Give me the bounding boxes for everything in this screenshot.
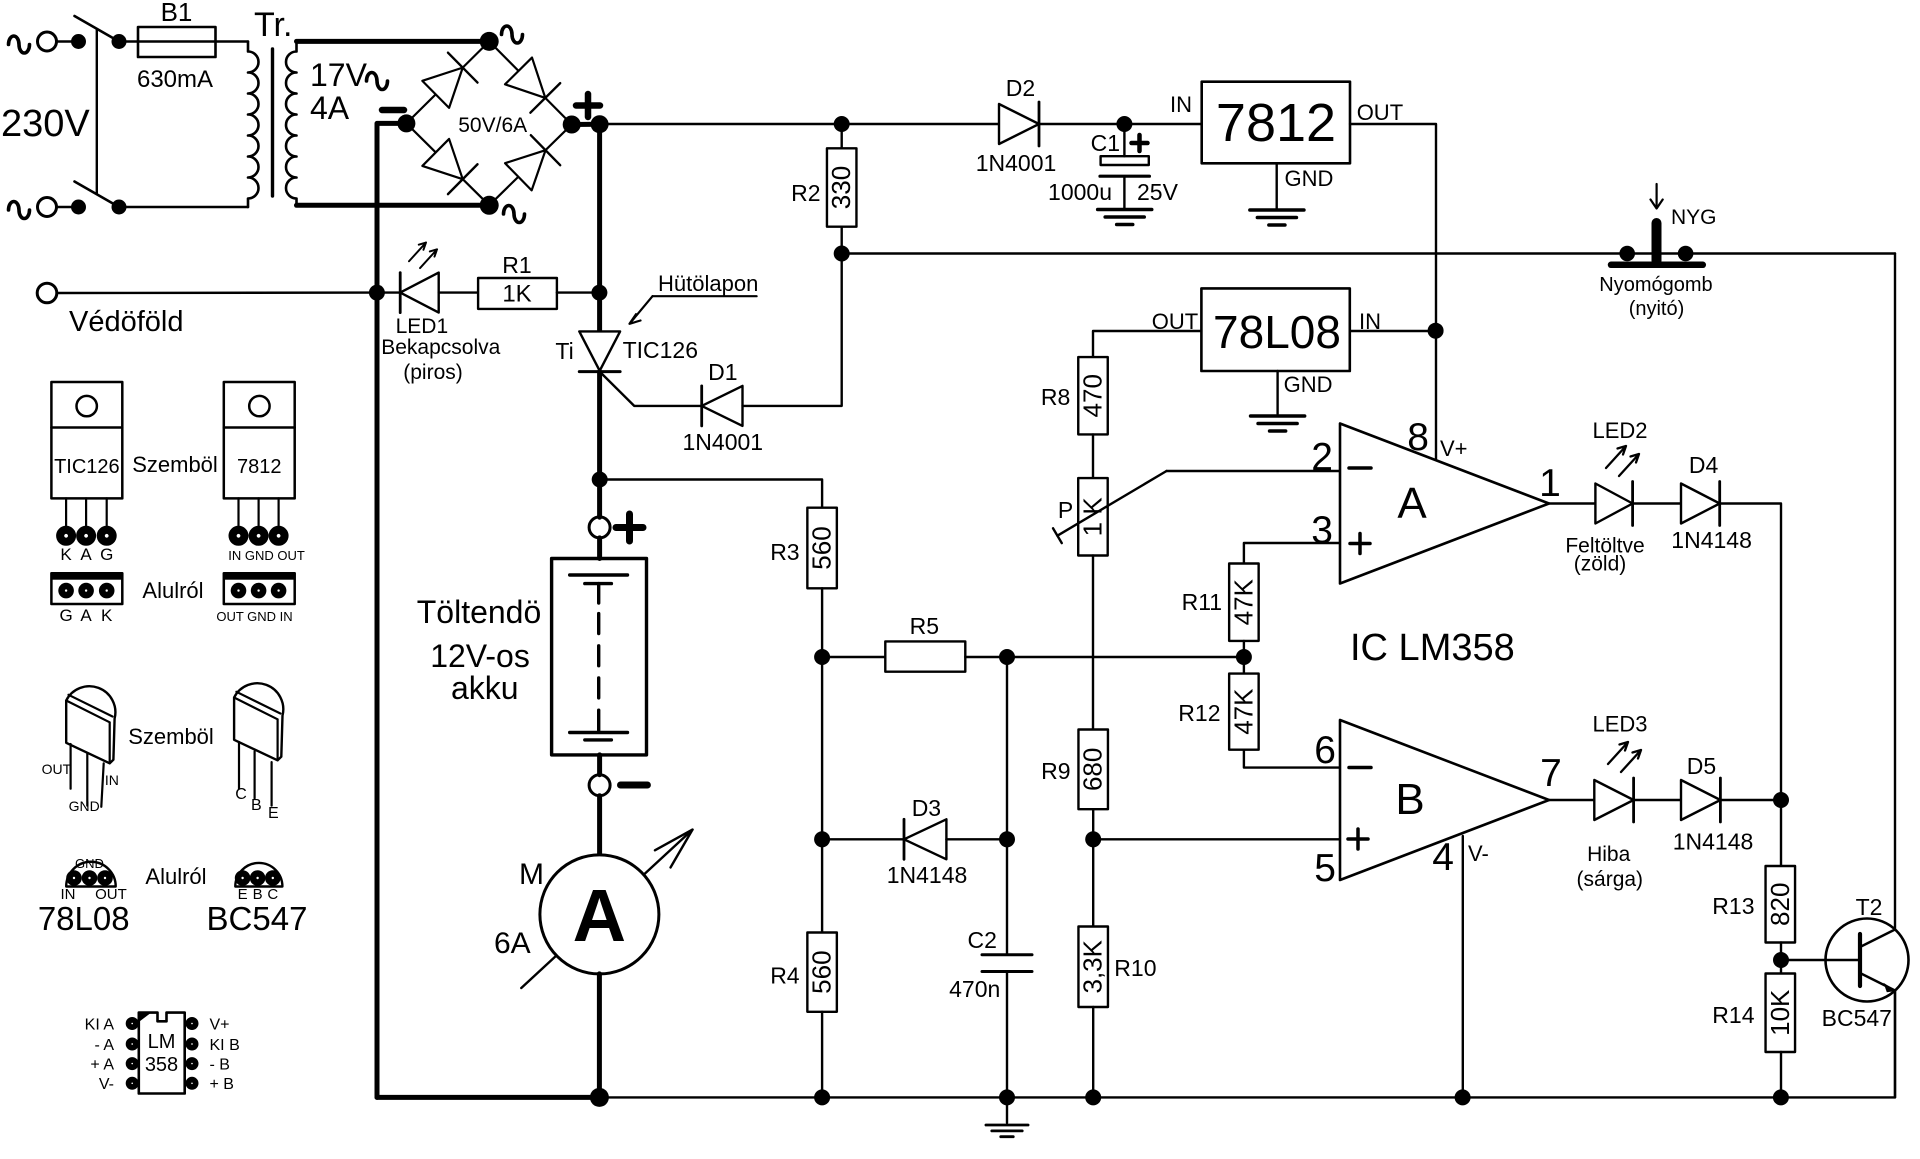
resistor R2 330 — [791, 124, 856, 254]
svg-text:3,3K: 3,3K — [1078, 939, 1108, 993]
svg-text:1 K: 1 K — [1078, 497, 1108, 537]
wire to fuse — [119, 40, 248, 42]
wire bridge edge top-left — [406, 41, 489, 123]
svg-text:470: 470 — [1078, 374, 1108, 417]
svg-text:LED3: LED3 — [1592, 712, 1647, 737]
svg-text:230V: 230V — [1, 103, 90, 145]
switch S1a blade — [75, 16, 120, 42]
wire R5 row to R11 — [1007, 656, 1244, 658]
svg-text:R11: R11 — [1182, 589, 1223, 615]
svg-text:OUT GND IN: OUT GND IN — [216, 609, 292, 624]
svg-text:8: 8 — [1407, 416, 1429, 459]
ground C1 — [1098, 210, 1152, 225]
svg-text:1N4148: 1N4148 — [1673, 829, 1754, 855]
wire P wiper to pin2 — [1167, 470, 1341, 472]
svg-text:LM: LM — [148, 1031, 176, 1053]
svg-text:R8: R8 — [1041, 384, 1070, 410]
label plus — [576, 94, 600, 117]
transformer secondary winding — [286, 42, 297, 206]
node bridge minus — [397, 114, 415, 132]
wire R3 to node — [821, 588, 823, 657]
IC LM358 DIP pinout — [85, 1013, 240, 1094]
svg-text:4: 4 — [1432, 836, 1454, 879]
wire plus bus mid thick — [597, 372, 602, 518]
svg-text:K: K — [101, 606, 113, 625]
pushbutton NYG (nyitó) — [1599, 184, 1716, 320]
op-amp U1B LM358 — [1314, 720, 1562, 890]
svg-text:1N4001: 1N4001 — [976, 150, 1057, 176]
node bridge AC bottom — [480, 196, 499, 215]
svg-text:LED2: LED2 — [1592, 418, 1647, 443]
svg-text:47K: 47K — [1228, 688, 1258, 735]
diode D2 1N4001 — [976, 75, 1057, 176]
wire minus bus — [377, 123, 406, 1097]
resistor R10 3,3K — [1078, 839, 1157, 1097]
svg-text:7812: 7812 — [1216, 93, 1336, 153]
ammeter M 6A — [494, 830, 693, 988]
svg-text:R14: R14 — [1712, 1002, 1754, 1028]
wire D5 to node — [1720, 799, 1781, 801]
node bridge plus — [563, 115, 609, 133]
transistor T2 BC547 — [1781, 894, 1909, 1097]
node switch S1a contact — [71, 34, 86, 49]
svg-text:R1: R1 — [502, 252, 531, 278]
resistor R12 47K — [1178, 657, 1258, 750]
svg-text:KI B: KI B — [210, 1037, 240, 1054]
label 17V~ 4A — [310, 57, 388, 126]
diode D5 1N4148 — [1673, 753, 1754, 855]
wire pin5 — [1093, 838, 1340, 840]
svg-text:C: C — [235, 786, 247, 803]
svg-text:(nyitó): (nyitó) — [1629, 298, 1685, 320]
svg-text:V+: V+ — [1440, 436, 1468, 461]
svg-text:K: K — [60, 545, 72, 564]
wire plus rail — [600, 123, 999, 125]
svg-text:Alulról: Alulról — [145, 864, 206, 889]
svg-text:820: 820 — [1765, 883, 1795, 926]
node switch S1b contact — [71, 200, 86, 215]
wire R3 node down to D3 — [821, 657, 823, 839]
package TIC126 bottom view — [51, 573, 122, 625]
svg-text:680: 680 — [1078, 748, 1108, 791]
wire ground rail — [599, 1096, 1895, 1098]
node LED1 / minus bus — [369, 285, 385, 301]
callout Hütölapon — [630, 271, 759, 324]
svg-text:B: B — [251, 797, 262, 814]
wire D4 to right branch — [1720, 504, 1781, 801]
wire opamp B output — [1549, 799, 1594, 801]
svg-text:470n: 470n — [949, 976, 1000, 1002]
svg-text:330: 330 — [826, 166, 856, 209]
package 7812 front view — [224, 382, 305, 563]
LED LED2 Feltöltve zöld — [1565, 418, 1647, 576]
battery Töltendö 12V-os akku — [417, 559, 647, 755]
node ground rail left — [590, 1088, 609, 1107]
diode D1 1N4001 — [683, 359, 764, 455]
svg-text:V-: V- — [99, 1076, 114, 1093]
node D4/D5/R13 — [1773, 792, 1789, 808]
resistor R4 560 — [770, 839, 837, 1097]
node R2 top — [834, 116, 850, 132]
wire LED2 to D4 — [1633, 502, 1681, 504]
svg-text:IN: IN — [1170, 92, 1192, 117]
wire primary return — [119, 206, 248, 208]
svg-text:1N4148: 1N4148 — [887, 862, 968, 888]
svg-text:E: E — [268, 805, 279, 822]
svg-text:6: 6 — [1314, 729, 1336, 772]
svg-text:Nyomógomb: Nyomógomb — [1599, 274, 1712, 296]
svg-text:1000u: 1000u — [1048, 179, 1112, 205]
svg-text:D5: D5 — [1687, 753, 1716, 779]
svg-text:560: 560 — [807, 950, 837, 993]
wire branch to R3 — [600, 480, 822, 508]
AC terminal L — [9, 32, 57, 53]
svg-text:D1: D1 — [708, 359, 737, 385]
svg-text:Töltendö: Töltendö — [417, 594, 542, 630]
svg-text:+ B: + B — [210, 1076, 234, 1093]
node R13/R14/base — [1773, 952, 1789, 968]
svg-text:Szemböl: Szemböl — [132, 452, 218, 477]
svg-text:GND: GND — [1284, 372, 1333, 397]
svg-text:TIC126: TIC126 — [623, 337, 698, 363]
node 78L08 IN / V+ — [1428, 323, 1444, 339]
svg-text:M: M — [519, 858, 544, 891]
regulator 78L08 — [1152, 288, 1381, 414]
resistor R9 680 — [1041, 730, 1108, 810]
battery plus terminal — [589, 514, 643, 541]
node switch S1a pivot — [112, 34, 127, 49]
wire L terminal to contact — [57, 40, 72, 42]
svg-text:IC LM358: IC LM358 — [1350, 627, 1515, 669]
wire opamp A output — [1549, 502, 1595, 504]
wire R12 to pin6 — [1244, 750, 1340, 768]
svg-text:1K: 1K — [502, 281, 531, 308]
svg-text:R3: R3 — [770, 539, 799, 565]
diode D4 1N4148 — [1671, 452, 1752, 553]
svg-text:B1: B1 — [161, 0, 193, 27]
wire to ammeter — [597, 796, 602, 855]
regulator 7812 — [1170, 82, 1403, 209]
diode bridge top-left — [421, 53, 478, 110]
label ~ bridge top — [502, 26, 523, 43]
svg-text:Tr.: Tr. — [254, 6, 292, 44]
transformer Tr. primary winding — [248, 6, 292, 207]
switch mechanical link — [96, 29, 98, 194]
svg-text:2: 2 — [1311, 436, 1333, 479]
svg-text:3: 3 — [1311, 509, 1333, 552]
LED LED3 Hiba sárga — [1577, 712, 1648, 891]
svg-text:4A: 4A — [310, 90, 350, 126]
node bridge AC top — [480, 32, 499, 51]
earth terminal Védöföld — [37, 283, 377, 338]
svg-text:6A: 6A — [494, 927, 531, 960]
wire N terminal to contact — [57, 206, 72, 208]
svg-text:TIC126: TIC126 — [54, 456, 120, 478]
node R11/R12 — [1236, 649, 1252, 665]
wire bridge edge bottom-left — [406, 123, 489, 205]
svg-text:OUT: OUT — [42, 761, 72, 777]
svg-text:R2: R2 — [791, 180, 820, 206]
wire pin3 — [1244, 543, 1340, 564]
svg-text:BC547: BC547 — [207, 900, 308, 937]
svg-text:G: G — [59, 606, 72, 625]
svg-text:Védöföld: Védöföld — [69, 306, 184, 338]
wire R8 to P — [1092, 434, 1094, 478]
ground 78L08 — [1251, 416, 1305, 431]
package BC547 3D view — [234, 683, 283, 822]
svg-text:R9: R9 — [1041, 758, 1070, 784]
svg-text:R13: R13 — [1712, 893, 1754, 919]
wire 78L08 OUT to R8 — [1093, 331, 1201, 357]
capacitor C1 1000u 25V — [1048, 124, 1179, 208]
svg-text:(sárga): (sárga) — [1577, 868, 1644, 891]
potentiometer P 1K — [1053, 471, 1167, 556]
AC terminal N — [9, 198, 57, 219]
svg-text:D2: D2 — [1006, 75, 1035, 101]
svg-text:(zöld): (zöld) — [1574, 553, 1627, 576]
svg-text:10K: 10K — [1765, 989, 1795, 1036]
svg-text:B: B — [1395, 775, 1424, 824]
wire gate — [600, 372, 702, 406]
svg-text:D3: D3 — [912, 795, 941, 821]
ground 7812 — [1250, 210, 1304, 225]
node R9/R10/pin5 — [1085, 809, 1101, 847]
op-amp U1A LM358 — [1311, 416, 1561, 584]
svg-text:1N4148: 1N4148 — [1671, 527, 1752, 553]
resistor R14 10K — [1712, 960, 1795, 1097]
svg-text:358: 358 — [145, 1054, 178, 1076]
wire bridge edge bottom-right — [489, 125, 572, 206]
svg-text:Alulról: Alulról — [142, 578, 203, 603]
svg-text:LED1: LED1 — [396, 315, 449, 338]
node D3 cathode — [999, 831, 1015, 847]
wire control rail — [842, 252, 1895, 254]
package 7812 bottom view — [216, 573, 294, 624]
resistor R1 1K — [478, 252, 599, 309]
diode bridge bottom-left — [421, 138, 478, 195]
wire right bus down to T2 collector — [1894, 254, 1896, 930]
thyristor Ti TIC126 — [555, 331, 698, 371]
wire plus bus upper thick — [597, 124, 602, 331]
svg-text:7812: 7812 — [237, 456, 282, 478]
svg-text:NYG: NYG — [1671, 206, 1717, 229]
svg-text:Hiba: Hiba — [1587, 843, 1631, 866]
svg-text:GND: GND — [69, 798, 100, 814]
svg-text:OUT: OUT — [1357, 100, 1403, 125]
ground main — [986, 1097, 1028, 1136]
svg-text:P: P — [1058, 497, 1073, 523]
battery minus terminal — [589, 755, 647, 796]
svg-text:D4: D4 — [1689, 452, 1719, 478]
package BC547 bottom view — [235, 863, 282, 903]
resistor R11 47K — [1182, 564, 1259, 658]
package TIC126 front view — [51, 382, 122, 564]
svg-text:Bekapcsolva: Bekapcsolva — [381, 336, 500, 359]
wire pin4 V- — [1462, 836, 1464, 1097]
svg-text:IN: IN — [105, 772, 119, 788]
svg-text:A: A — [573, 874, 626, 957]
svg-text:560: 560 — [807, 526, 837, 569]
label ~ bridge bottom — [504, 206, 525, 223]
svg-text:(piros): (piros) — [403, 361, 463, 384]
node R14/ground — [1773, 1089, 1789, 1105]
node R2 bottom / D1 anode rail — [834, 246, 850, 262]
svg-text:R5: R5 — [910, 613, 939, 639]
svg-text:A: A — [80, 606, 92, 625]
wire secondary bottom thick — [297, 203, 490, 208]
wire ammeter to ground rail — [597, 974, 602, 1098]
capacitor C2 470n — [949, 927, 1032, 1002]
wire P bottom to R9 — [1092, 556, 1094, 730]
svg-text:A: A — [1397, 479, 1427, 528]
resistor R3 560 — [770, 508, 837, 589]
wire — [597, 538, 602, 559]
svg-text:78L08: 78L08 — [1213, 306, 1341, 358]
wire C2 branch — [1006, 657, 1008, 955]
svg-text:T2: T2 — [1856, 894, 1883, 920]
svg-text:7: 7 — [1540, 752, 1562, 795]
svg-text:Szemböl: Szemböl — [128, 724, 214, 749]
svg-text:A: A — [80, 545, 92, 564]
package 78L08 bottom view — [61, 856, 127, 903]
svg-text:- A: - A — [94, 1037, 114, 1054]
node C1 tap — [1116, 116, 1132, 132]
svg-text:R12: R12 — [1178, 700, 1220, 726]
svg-text:Ti: Ti — [555, 338, 573, 364]
LED LED1 Bekapcsolva (piros) — [377, 243, 501, 384]
svg-text:R10: R10 — [1114, 955, 1156, 981]
svg-text:25V: 25V — [1137, 179, 1179, 205]
diode bridge bottom-right — [504, 135, 561, 192]
svg-text:V-: V- — [1468, 841, 1489, 866]
svg-text:1: 1 — [1539, 462, 1561, 505]
svg-text:V+: V+ — [210, 1017, 230, 1034]
wire bridge edge top-right — [489, 41, 572, 124]
node D3 anode — [814, 831, 830, 847]
svg-text:C1: C1 — [1091, 130, 1120, 156]
diode D3 1N4148 — [822, 795, 1007, 888]
node R5/C2 — [999, 649, 1015, 665]
wire 7812 OUT to V+ — [1350, 124, 1436, 461]
node switch S1b pivot — [112, 200, 127, 215]
label minus — [382, 107, 404, 114]
node R10/ground — [1085, 1089, 1101, 1105]
svg-text:1N4001: 1N4001 — [683, 429, 764, 455]
svg-text:KI A: KI A — [85, 1017, 115, 1034]
node pin4/ground — [1455, 1089, 1471, 1105]
resistor R8 470 — [1041, 357, 1108, 434]
diode bridge top-right — [504, 56, 561, 113]
wire ground rail right corner — [1894, 991, 1896, 1098]
wire ground rail thick — [377, 1095, 599, 1100]
svg-text:50V/6A: 50V/6A — [458, 114, 527, 137]
svg-text:IN GND OUT: IN GND OUT — [228, 548, 305, 563]
resistor R13 820 — [1712, 800, 1795, 960]
package 78L08 3D view — [42, 686, 119, 814]
svg-text:17V: 17V — [310, 57, 368, 93]
wire D2 to 7812 — [1039, 123, 1202, 125]
svg-text:+ A: + A — [90, 1057, 114, 1074]
svg-text:- B: - B — [210, 1057, 230, 1074]
node R3/R5/R4 — [814, 649, 830, 665]
switch S1b blade — [75, 182, 120, 208]
transformer core — [271, 49, 274, 196]
svg-text:47K: 47K — [1228, 578, 1258, 625]
svg-text:G: G — [100, 545, 113, 564]
svg-text:GND: GND — [1285, 166, 1334, 191]
resistor R5 — [822, 613, 1007, 672]
svg-text:78L08: 78L08 — [38, 900, 130, 937]
wire secondary top thick — [297, 39, 490, 44]
svg-text:630mA: 630mA — [137, 66, 213, 93]
svg-text:12V-os: 12V-os — [430, 638, 530, 674]
wire LED3 to D5 — [1634, 799, 1681, 801]
wire C2 to ground rail — [1006, 972, 1008, 1098]
svg-text:BC547: BC547 — [1822, 1005, 1892, 1031]
fuse B1 630mA — [137, 0, 216, 93]
svg-text:C2: C2 — [967, 927, 996, 953]
svg-text:Hütölapon: Hütölapon — [658, 271, 758, 296]
node battery branch — [592, 472, 608, 488]
node R4/ground — [814, 1089, 830, 1105]
node C2/ground — [999, 1089, 1015, 1105]
svg-text:akku: akku — [451, 670, 519, 706]
svg-text:5: 5 — [1314, 847, 1336, 890]
wire 78L08 IN — [1350, 330, 1436, 332]
svg-text:GND: GND — [75, 856, 104, 871]
svg-text:R4: R4 — [770, 963, 800, 989]
node R1 / plus bus — [591, 285, 607, 301]
wire D1 anode to rail — [743, 254, 842, 406]
